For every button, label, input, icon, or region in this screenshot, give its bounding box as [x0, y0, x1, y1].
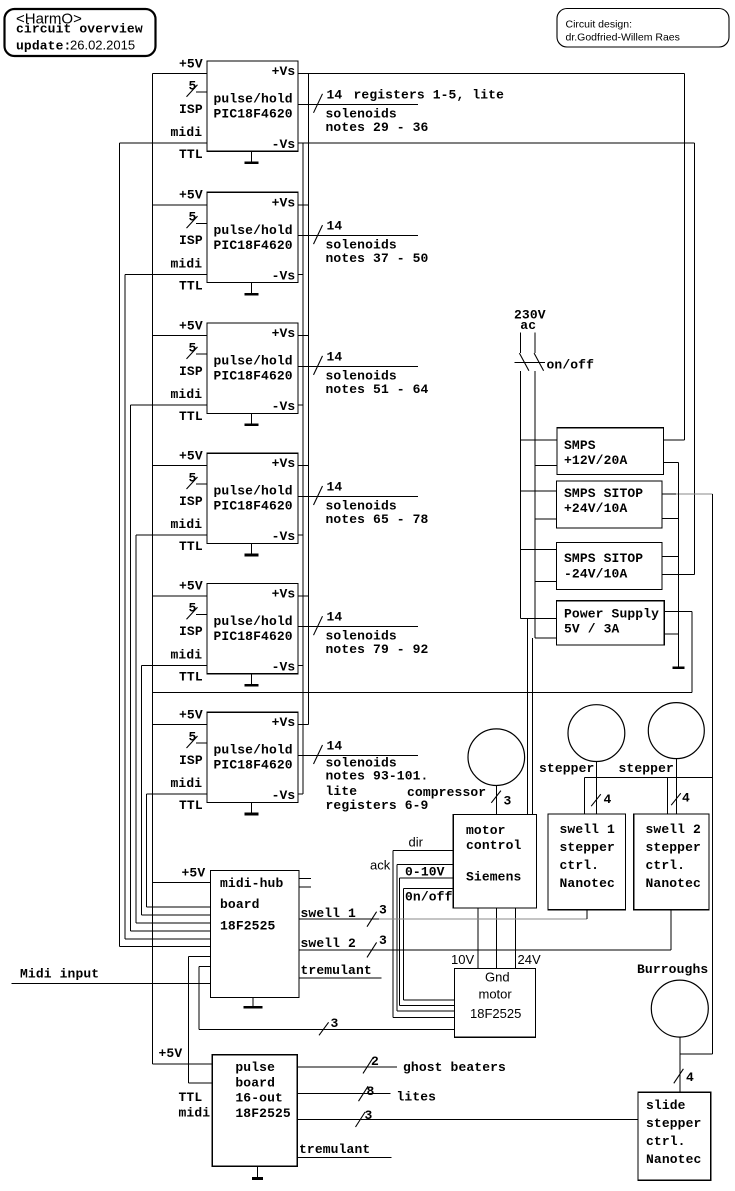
wire midi block 3: [131, 404, 208, 406]
svg-text:-Vs: -Vs: [272, 268, 296, 283]
-Vs stub block 5: [298, 664, 303, 666]
wire +5V into midi-hub: [153, 882, 211, 884]
svg-text:ISP: ISP: [179, 753, 203, 768]
wire 0-10V route to Gnd board: [400, 878, 455, 1005]
svg-text:26.02.2015: 26.02.2015: [70, 38, 135, 53]
wire 0n/off: [404, 887, 454, 889]
pulse/hold block U3 PIC18F4620: [207, 323, 298, 414]
svg-text:5: 5: [189, 78, 197, 93]
wire 230V to PS5V upper: [520, 617, 556, 619]
svg-text:3: 3: [379, 902, 387, 917]
solenoid output wire block 2: [298, 219, 418, 245]
switch on/off double pole: [515, 353, 595, 372]
svg-text:swell 2: swell 2: [646, 822, 702, 837]
midi bus vertical block 1 to midi-hub: [119, 143, 121, 947]
svg-text:circuit overview: circuit overview: [16, 22, 143, 37]
-Vs stub block 2: [298, 273, 303, 275]
svg-text:4: 4: [686, 1070, 694, 1085]
svg-text:TTL: TTL: [179, 1090, 203, 1105]
wire midi-hub to Gnd board bus 3: [199, 966, 455, 1035]
svg-text:2: 2: [371, 1054, 379, 1069]
svg-text:motor: motor: [479, 986, 513, 1001]
svg-text:+Vs: +Vs: [272, 64, 296, 79]
svg-text:ctrl.: ctrl.: [560, 858, 600, 873]
wire +5V into block 5: [153, 595, 208, 597]
svg-text:pulse/hold: pulse/hold: [214, 614, 293, 629]
svg-text:0-10V: 0-10V: [405, 865, 445, 880]
svg-text:pulse: pulse: [235, 1060, 275, 1075]
svg-text:stepper: stepper: [539, 761, 594, 776]
svg-text:midi: midi: [179, 1105, 211, 1120]
svg-text:+12V/20A: +12V/20A: [564, 453, 627, 468]
wire dir route to Gnd board: [393, 850, 454, 1017]
wire +12V feed from +Vs to SMPS: [683, 74, 685, 441]
svg-text:PIC18F4620: PIC18F4620: [214, 499, 293, 514]
svg-text:midi: midi: [171, 125, 203, 140]
title badge <HarmO>: [5, 9, 156, 56]
ground of power supplies: [672, 462, 684, 669]
-Vs stub block 3: [298, 404, 303, 406]
svg-text:Circuit design:: Circuit design:: [566, 19, 633, 31]
svg-text:dr.Godfried-Willem Raes: dr.Godfried-Willem Raes: [566, 32, 680, 44]
wire SMPS+12V return: [664, 461, 679, 463]
motor control Siemens: [453, 814, 536, 908]
wire motor control to Gnd board middle: [496, 908, 498, 968]
wire ack: [397, 863, 454, 865]
svg-text:PIC18F4620: PIC18F4620: [214, 238, 293, 253]
Power Supply 5V/3A: [557, 601, 665, 645]
pulse/hold block U4 PIC18F4620: [207, 453, 298, 544]
pulse/hold block U5 PIC18F4620: [207, 583, 298, 674]
wire 24V motor control to Gnd board: [515, 908, 517, 968]
svg-text:+24V/10A: +24V/10A: [564, 501, 627, 516]
-Vs stub block 6: [298, 793, 303, 795]
svg-text:+5V: +5V: [179, 579, 203, 594]
svg-text:3: 3: [504, 793, 512, 808]
svg-text:midi: midi: [171, 517, 203, 532]
svg-text:+5V: +5V: [179, 188, 203, 203]
svg-text:18F2525: 18F2525: [220, 919, 276, 934]
+5V bus vertical: [152, 74, 154, 1065]
wire +5V rail from PS down: [691, 612, 693, 693]
midi bus vertical block 5 to midi-hub: [140, 665, 142, 915]
svg-text:lite: lite: [326, 784, 358, 799]
wire ack route to Gnd board: [397, 864, 455, 1011]
ground below block 2: [245, 283, 259, 296]
ground below pulse board: [252, 1166, 263, 1180]
wire lites bus 8: [297, 1084, 390, 1101]
stub midi-hub right upper: [299, 878, 311, 880]
SMPS SITOP -24V/10A power supply: [557, 543, 662, 590]
svg-text:4: 4: [604, 792, 612, 807]
pulse/hold block U1 PIC18F4620: [207, 61, 298, 152]
ground below block 1: [245, 151, 259, 164]
swell 1 stepper ctrl Nanotec: [548, 814, 626, 910]
svg-text:-24V/10A: -24V/10A: [564, 566, 627, 581]
ground below midi-hub: [244, 997, 263, 1008]
motor M4 Burroughs: [651, 980, 708, 1037]
svg-text:tremulant: tremulant: [301, 963, 372, 978]
svg-text:pulse/hold: pulse/hold: [214, 354, 293, 369]
svg-text:16-out: 16-out: [235, 1091, 283, 1106]
midi bus vertical block 2 to midi-hub: [124, 274, 126, 939]
svg-text:+Vs: +Vs: [272, 195, 296, 210]
svg-text:+5V: +5V: [179, 318, 203, 333]
svg-text:5V / 3A: 5V / 3A: [564, 622, 620, 637]
+Vs stub block 1: [298, 73, 684, 75]
ISP stub with bus-width 5 block 4: [187, 471, 208, 490]
wire +5V into block 3: [153, 335, 208, 337]
ground below block 5: [245, 674, 259, 687]
svg-text:registers 1-5, lite: registers 1-5, lite: [354, 87, 505, 102]
wire 230V live: [519, 333, 521, 353]
midi bus horizontal into hub block 4: [136, 922, 211, 924]
svg-text:5: 5: [189, 340, 197, 355]
svg-text:on/off: on/off: [547, 357, 595, 372]
ground below block 4: [245, 544, 259, 557]
wire 24V rail to stepper controllers: [585, 777, 713, 779]
svg-text:18F2525: 18F2525: [470, 1006, 521, 1021]
pulse/hold block U2 PIC18F4620: [207, 192, 298, 283]
svg-text:TTL: TTL: [179, 147, 203, 162]
svg-text:+Vs: +Vs: [272, 326, 296, 341]
svg-text:stepper: stepper: [619, 761, 674, 776]
svg-text:24V: 24V: [518, 952, 541, 967]
wire Midi input: [11, 983, 210, 985]
slide stepper ctrl Nanotec: [638, 1092, 711, 1180]
svg-text:ac: ac: [520, 318, 536, 333]
ground below block 6: [245, 803, 259, 816]
wire 230V to SMPS+12V upper: [520, 439, 557, 441]
svg-text:update:: update:: [16, 39, 71, 54]
+Vs stub block 5: [298, 595, 309, 597]
svg-text:Midi input: Midi input: [20, 967, 99, 982]
svg-text:PIC18F4620: PIC18F4620: [214, 107, 293, 122]
wire swell 1 bus 3: [299, 902, 587, 926]
ISP stub with bus-width 5 block 5: [187, 601, 208, 620]
svg-text:dir: dir: [409, 834, 424, 849]
svg-text:tremulant: tremulant: [299, 1142, 370, 1157]
solenoid output wire block 4: [298, 480, 418, 506]
svg-text:14: 14: [327, 480, 343, 495]
svg-text:TTL: TTL: [179, 409, 203, 424]
wire 230V branch to motor control neutral: [532, 638, 534, 815]
svg-text:ISP: ISP: [179, 494, 203, 509]
wire midi-hub to pulse board TTL link: [189, 956, 213, 1083]
ISP stub with bus-width 5 block 2: [187, 210, 208, 229]
wire +5V into pulse board: [153, 1063, 213, 1065]
svg-text:PIC18F4620: PIC18F4620: [214, 629, 293, 644]
svg-text:pulse/hold: pulse/hold: [214, 484, 293, 499]
wire PS5V return: [664, 633, 678, 635]
wire tremulant pulse board: [297, 1157, 391, 1159]
svg-text:control: control: [466, 838, 522, 853]
midi bus vertical block 3 to midi-hub: [130, 405, 132, 931]
svg-text:midi: midi: [171, 387, 203, 402]
wire compressor motor to controller bus 3: [491, 786, 511, 815]
node 230V ac: [514, 308, 546, 334]
svg-text:+Vs: +Vs: [272, 456, 296, 471]
solenoid output wire block 6: [298, 739, 418, 765]
-Vs stub block 1: [298, 142, 694, 144]
svg-text:stepper: stepper: [646, 1116, 701, 1131]
svg-text:slide: slide: [646, 1098, 686, 1113]
ISP stub with bus-width 5 block 1: [187, 78, 208, 97]
svg-text:TTL: TTL: [179, 278, 203, 293]
midi bus horizontal into hub block 6: [147, 906, 211, 908]
svg-text:14: 14: [327, 219, 343, 234]
wire 0n/off route to Gnd board: [404, 888, 455, 999]
wire stepper1 to swell1 ctrl bus 4: [591, 762, 611, 815]
svg-text:midi: midi: [171, 647, 203, 662]
wire 230V to SMPS+12V lower: [535, 465, 557, 467]
svg-text:4: 4: [682, 790, 690, 805]
ISP stub with bus-width 5 block 3: [187, 340, 208, 359]
block 6 extra note labels: [326, 768, 429, 813]
svg-text:3: 3: [365, 1108, 373, 1123]
wire 230V neutral: [534, 333, 536, 353]
ISP stub with bus-width 5 block 6: [187, 730, 208, 749]
wire 230V to PS5V lower: [535, 637, 557, 639]
SMPS +12V/20A power supply: [557, 428, 664, 475]
svg-text:8: 8: [367, 1084, 375, 1099]
wire SITOP+24V return: [662, 518, 678, 520]
svg-text:TTL: TTL: [179, 798, 203, 813]
svg-text:compressor: compressor: [407, 785, 486, 800]
svg-text:-Vs: -Vs: [272, 137, 296, 152]
+Vs stub block 6: [298, 724, 309, 726]
solenoid output wire block 5: [298, 610, 418, 636]
midi bus vertical block 6 to midi-hub: [146, 794, 148, 907]
pulse board 16-out 18F2525: [212, 1055, 297, 1167]
svg-text:notes 79 - 92: notes 79 - 92: [326, 642, 429, 657]
svg-text:ISP: ISP: [179, 364, 203, 379]
motor M3 swell 2 stepper: [648, 703, 704, 759]
wire SITOP-24V output to -Vs bus: [662, 574, 694, 576]
motor M2 swell 1 stepper: [568, 705, 625, 762]
wire midi block 2: [125, 273, 207, 275]
svg-text:Siemens: Siemens: [466, 870, 522, 885]
svg-text:14: 14: [327, 349, 343, 364]
svg-text:ack: ack: [370, 858, 391, 873]
svg-text:Nanotec: Nanotec: [646, 1152, 702, 1167]
svg-text:5: 5: [189, 601, 197, 616]
svg-text:TTL: TTL: [179, 669, 203, 684]
wire 230V branch to motor control live: [527, 618, 529, 814]
svg-text:PIC18F4620: PIC18F4620: [214, 758, 293, 773]
wire 230V to SITOP-24V lower: [535, 581, 557, 583]
svg-text:swell 2: swell 2: [301, 936, 357, 951]
svg-text:-Vs: -Vs: [272, 788, 296, 803]
svg-text:notes 37 - 50: notes 37 - 50: [326, 251, 429, 266]
wire +5V into block 4: [153, 465, 208, 467]
wire 10V motor control to Gnd board: [477, 908, 479, 968]
svg-text:SMPS SITOP: SMPS SITOP: [564, 551, 643, 566]
svg-text:14: 14: [327, 610, 343, 625]
wire midi block 4: [136, 534, 207, 536]
svg-text:ISP: ISP: [179, 102, 203, 117]
wire ghost beaters bus 2: [297, 1054, 397, 1073]
wire 24V into swell2 ctrl: [666, 778, 668, 815]
solenoid output wire block 3: [298, 349, 418, 375]
wire +5V rail horizontal to +5V bus: [153, 691, 692, 693]
wire +5V into block 2: [153, 204, 208, 206]
svg-text:-Vs: -Vs: [272, 529, 296, 544]
midi-hub board 18F2525: [211, 871, 300, 998]
svg-text:-Vs: -Vs: [272, 399, 296, 414]
midi bus horizontal into hub block 1: [120, 946, 211, 948]
wire Burroughs to slide stepper bus 4: [674, 1037, 694, 1092]
svg-text:lites: lites: [397, 1089, 437, 1104]
svg-text:motor: motor: [466, 823, 506, 838]
ground below block 3: [245, 413, 259, 426]
svg-text:18F2525: 18F2525: [235, 1106, 291, 1121]
wire swell1 riser into ctrl: [586, 910, 588, 919]
svg-text:ISP: ISP: [179, 624, 203, 639]
midi bus horizontal into hub block 2: [125, 938, 210, 940]
wire swell2 riser into ctrl: [670, 910, 672, 950]
wire 24V rail vertical right: [711, 494, 713, 1054]
wire 0-10V: [400, 877, 454, 879]
svg-text:PIC18F4620: PIC18F4620: [214, 369, 293, 384]
svg-text:midi-hub: midi-hub: [220, 876, 283, 891]
svg-text:5: 5: [189, 471, 197, 486]
wire SITOP+24V output to steppers: [662, 493, 712, 495]
svg-text:14: 14: [327, 739, 343, 754]
svg-text:+5V: +5V: [182, 865, 206, 880]
solenoid output wire block 1: [298, 87, 418, 113]
midi bus vertical block 4 to midi-hub: [135, 535, 137, 923]
wire SITOP-24V return: [662, 555, 678, 557]
svg-text:+Vs: +Vs: [272, 715, 296, 730]
svg-text:board: board: [235, 1075, 275, 1090]
wire -24V feed from -Vs to SMPS: [693, 143, 695, 575]
svg-text:+5V: +5V: [159, 1046, 183, 1061]
Gnd motor board 18F2525: [455, 968, 536, 1037]
svg-text:SMPS SITOP: SMPS SITOP: [564, 486, 643, 501]
svg-text:stepper: stepper: [646, 840, 701, 855]
wire 230V live below switch: [519, 371, 521, 619]
svg-text:10V: 10V: [451, 952, 474, 967]
+Vs stub block 2: [298, 204, 309, 206]
svg-text:3: 3: [379, 933, 387, 948]
svg-text:Nanotec: Nanotec: [560, 876, 616, 891]
svg-text:notes 51 - 64: notes 51 - 64: [326, 382, 429, 397]
wire pulse board to slide stepper bus 3: [297, 1108, 638, 1127]
wire tremulant midi-hub: [299, 977, 382, 979]
wire 230V to SITOP+24V upper: [520, 490, 556, 492]
midi bus horizontal into hub block 3: [131, 930, 211, 932]
svg-text:5: 5: [189, 730, 197, 745]
wire stepper2 to swell2 ctrl bus 4: [671, 759, 690, 814]
svg-text:midi: midi: [171, 256, 203, 271]
wire 24V into swell1 ctrl: [584, 778, 586, 815]
wire +5V into block 1: [153, 73, 208, 75]
svg-text:0n/off: 0n/off: [405, 890, 453, 905]
svg-text:ctrl.: ctrl.: [646, 1134, 686, 1149]
svg-text:TTL: TTL: [179, 539, 203, 554]
svg-text:notes 93-101.: notes 93-101.: [326, 768, 429, 783]
svg-text:14: 14: [327, 87, 343, 102]
-Vs bus vertical: [302, 143, 304, 794]
wire SMPS+12V output to +Vs bus: [664, 439, 685, 441]
stub midi-hub right lower: [299, 886, 311, 888]
wire +5V into block 6: [153, 724, 208, 726]
svg-text:board: board: [220, 897, 260, 912]
svg-text:-Vs: -Vs: [272, 659, 296, 674]
-Vs stub block 4: [298, 534, 303, 536]
svg-text:notes 29 - 36: notes 29 - 36: [326, 120, 429, 135]
svg-text:5: 5: [189, 210, 197, 225]
wire swell 2 bus 3: [299, 933, 671, 958]
svg-text:+5V: +5V: [179, 56, 203, 71]
svg-text:Burroughs: Burroughs: [637, 962, 708, 977]
SMPS SITOP +24V/10A power supply: [557, 481, 662, 528]
wire midi block 5: [141, 664, 207, 666]
svg-text:pulse/hold: pulse/hold: [214, 743, 293, 758]
wire 230V to SITOP-24V upper: [520, 549, 556, 551]
svg-text:stepper: stepper: [560, 840, 615, 855]
svg-text:3: 3: [331, 1016, 339, 1031]
wire 230V neutral below switch: [534, 371, 536, 638]
svg-text:ghost beaters: ghost beaters: [403, 1060, 506, 1075]
svg-text:swell 1: swell 1: [560, 822, 616, 837]
svg-text:pulse/hold: pulse/hold: [214, 92, 293, 107]
svg-text:ctrl.: ctrl.: [646, 858, 686, 873]
wire PS5V +5V output: [664, 611, 692, 613]
designer badge: [557, 9, 729, 48]
+Vs bus vertical: [308, 74, 310, 725]
wire midi block 6: [147, 793, 208, 795]
svg-text:registers 6-9: registers 6-9: [326, 798, 429, 813]
midi bus horizontal into hub block 5: [141, 914, 210, 916]
svg-text:Power Supply: Power Supply: [564, 607, 659, 622]
svg-text:Gnd: Gnd: [485, 969, 510, 984]
wire 230V to SITOP+24V lower: [535, 518, 557, 520]
svg-text:Nanotec: Nanotec: [646, 876, 702, 891]
pulse/hold block U6 PIC18F4620: [207, 712, 298, 803]
+Vs stub block 4: [298, 465, 309, 467]
wire midi block 1: [120, 142, 208, 144]
svg-text:SMPS: SMPS: [564, 438, 596, 453]
wire dir: [393, 849, 453, 851]
svg-text:notes 65 - 78: notes 65 - 78: [326, 512, 429, 527]
motor M1 compressor: [468, 729, 525, 786]
wire 24V to slide stepper: [680, 1053, 713, 1055]
svg-text:ISP: ISP: [179, 233, 203, 248]
svg-text:+Vs: +Vs: [272, 586, 296, 601]
+Vs stub block 3: [298, 335, 309, 337]
swell 2 stepper ctrl Nanotec: [634, 814, 709, 910]
svg-text:pulse/hold: pulse/hold: [214, 223, 293, 238]
svg-text:+5V: +5V: [179, 449, 203, 464]
svg-text:midi: midi: [171, 776, 203, 791]
svg-text:+5V: +5V: [179, 708, 203, 723]
